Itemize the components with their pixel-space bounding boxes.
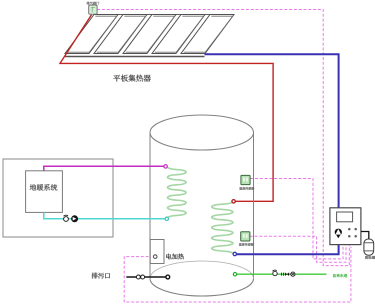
electric heater [150, 240, 164, 264]
temperature sensor T1 [241, 175, 250, 184]
pipe cold water inlet (green) [237, 273, 327, 275]
label floor label: 地暖系统 [30, 184, 58, 191]
union ticks on green pipe [282, 273, 284, 276]
node red pipe to coil [232, 200, 235, 203]
temperature sensor T2 [241, 232, 250, 241]
collector panel 2 [94, 15, 147, 54]
floor heating outer room box [3, 159, 113, 237]
wire heater power cable (pink dashed) [124, 247, 351, 303]
wire sensor cable T2 to controller (pink dashed) [250, 236, 346, 262]
floor heating unit box [26, 171, 63, 213]
pump in controller [335, 229, 342, 239]
gate valve on green pipe [285, 272, 289, 276]
heater terminal node [153, 255, 157, 259]
ball valve on green pipe [291, 272, 295, 276]
label sensor2 label: 温度传感器 [239, 243, 254, 246]
collector panel 3 [123, 15, 176, 54]
controller buttons [348, 228, 357, 238]
pipe return (blue) collector-controller-tank coil [205, 54, 339, 254]
storage tank body [150, 115, 254, 296]
controller box [330, 208, 361, 245]
drain pipe (black) [126, 276, 168, 278]
node green to tank [233, 273, 236, 276]
node cyan to coil [165, 217, 168, 220]
drain valve [136, 275, 140, 279]
collector array: bottom header pipe [65, 56, 205, 58]
circulation pump on cyan pipe [71, 215, 78, 222]
check valve on cyan pipe [64, 215, 69, 221]
drain tank connection dot [166, 275, 170, 279]
collector panel 4 [152, 15, 205, 54]
label drain label: 排污口 [92, 273, 110, 279]
heat exchanger coil left (solar floor loop) [168, 167, 187, 218]
collector array: top header pipe [94, 14, 234, 16]
expansion vessel [364, 239, 374, 255]
label heater label: 电加热 [166, 254, 184, 260]
pipe floor-heating supply (magenta) [44, 166, 164, 171]
label air valve label: 排气阀门 [87, 2, 100, 5]
label vessel label: 膨胀罐 [365, 256, 375, 259]
node blue pipe to coil [233, 252, 236, 255]
label tap water label: 自来水进 [333, 274, 347, 277]
wire sensor cable from air valve to controller (pink dashed) [97, 10, 349, 266]
wire sensor cable T1 to controller (pink dashed) [250, 179, 343, 259]
heat exchanger coil right (collector loop) [212, 202, 233, 254]
collector panel 5 [181, 15, 234, 54]
node magenta to coil [164, 165, 167, 168]
label panel label: 平板集热器 [113, 75, 151, 82]
check valve on green pipe [272, 270, 277, 276]
pipe floor-heating return (cyan) [44, 212, 165, 218]
label sensor1 label: 温度传感器 [239, 187, 254, 190]
controller display [337, 212, 353, 222]
pipe hot supply (red) collector to tank coil [60, 15, 273, 202]
pipe to expansion vessel (black) [361, 232, 369, 240]
air vent valve on collector [89, 5, 97, 14]
collector panel 1 [65, 15, 118, 54]
